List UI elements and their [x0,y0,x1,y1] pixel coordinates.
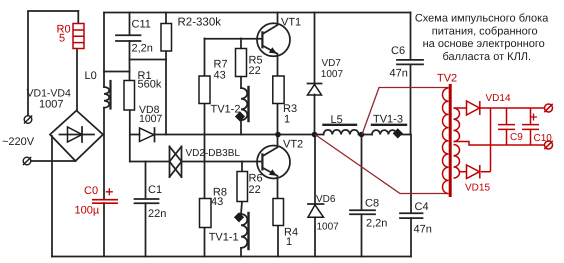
svg-text:43: 43 [211,196,223,208]
svg-text:C11: C11 [132,19,151,31]
svg-text:1007: 1007 [39,98,63,110]
svg-text:на основе электронного: на основе электронного [423,38,545,50]
svg-text:TV2: TV2 [437,73,457,85]
svg-text:VD15: VD15 [465,183,490,194]
svg-text:L0: L0 [85,70,97,82]
svg-text:1007: 1007 [321,69,344,80]
svg-text:C0: C0 [84,185,98,197]
svg-text:22n: 22n [148,208,166,220]
svg-text:VT2: VT2 [283,139,303,151]
svg-text:100µ: 100µ [75,205,100,217]
svg-text:VT1: VT1 [281,17,301,29]
svg-text:C1: C1 [148,184,162,196]
svg-text:TV1-2: TV1-2 [211,104,241,116]
svg-text:балласта от КЛЛ.: балласта от КЛЛ. [443,51,532,63]
svg-text:TV1-1: TV1-1 [209,231,239,243]
svg-text:1007: 1007 [139,113,163,125]
svg-text:5: 5 [59,33,65,45]
svg-text:C6: C6 [391,45,405,57]
svg-text:C10: C10 [534,133,553,144]
svg-text:VD14: VD14 [486,93,511,104]
svg-text:R2-330k: R2-330k [178,17,222,29]
svg-text:1: 1 [284,114,290,126]
svg-text:47n: 47n [390,68,408,80]
svg-text:1: 1 [286,236,292,248]
svg-text:~220V: ~220V [2,136,35,148]
svg-text:C4: C4 [415,201,429,213]
svg-text:22: 22 [249,65,261,77]
svg-text:43: 43 [214,70,226,82]
svg-text:C9: C9 [510,132,523,143]
svg-text:2,2n: 2,2n [366,218,387,230]
svg-text:VD6: VD6 [316,194,336,205]
svg-text:Схема импульсного блока: Схема импульсного блока [415,13,549,25]
svg-text:VD7: VD7 [322,58,342,69]
svg-text:1007: 1007 [317,222,340,233]
svg-text:47n: 47n [414,224,432,236]
svg-text:R6: R6 [249,173,263,185]
svg-text:C8: C8 [365,198,379,210]
svg-text:питания, собранного: питания, собранного [432,25,538,37]
svg-text:2,2n: 2,2n [132,43,153,55]
svg-text:L5: L5 [331,114,343,126]
svg-text:TV1-3: TV1-3 [373,114,403,126]
svg-text:560k: 560k [138,79,162,91]
svg-text:22: 22 [249,184,261,196]
svg-text:VD2-DB3BL: VD2-DB3BL [186,148,241,159]
